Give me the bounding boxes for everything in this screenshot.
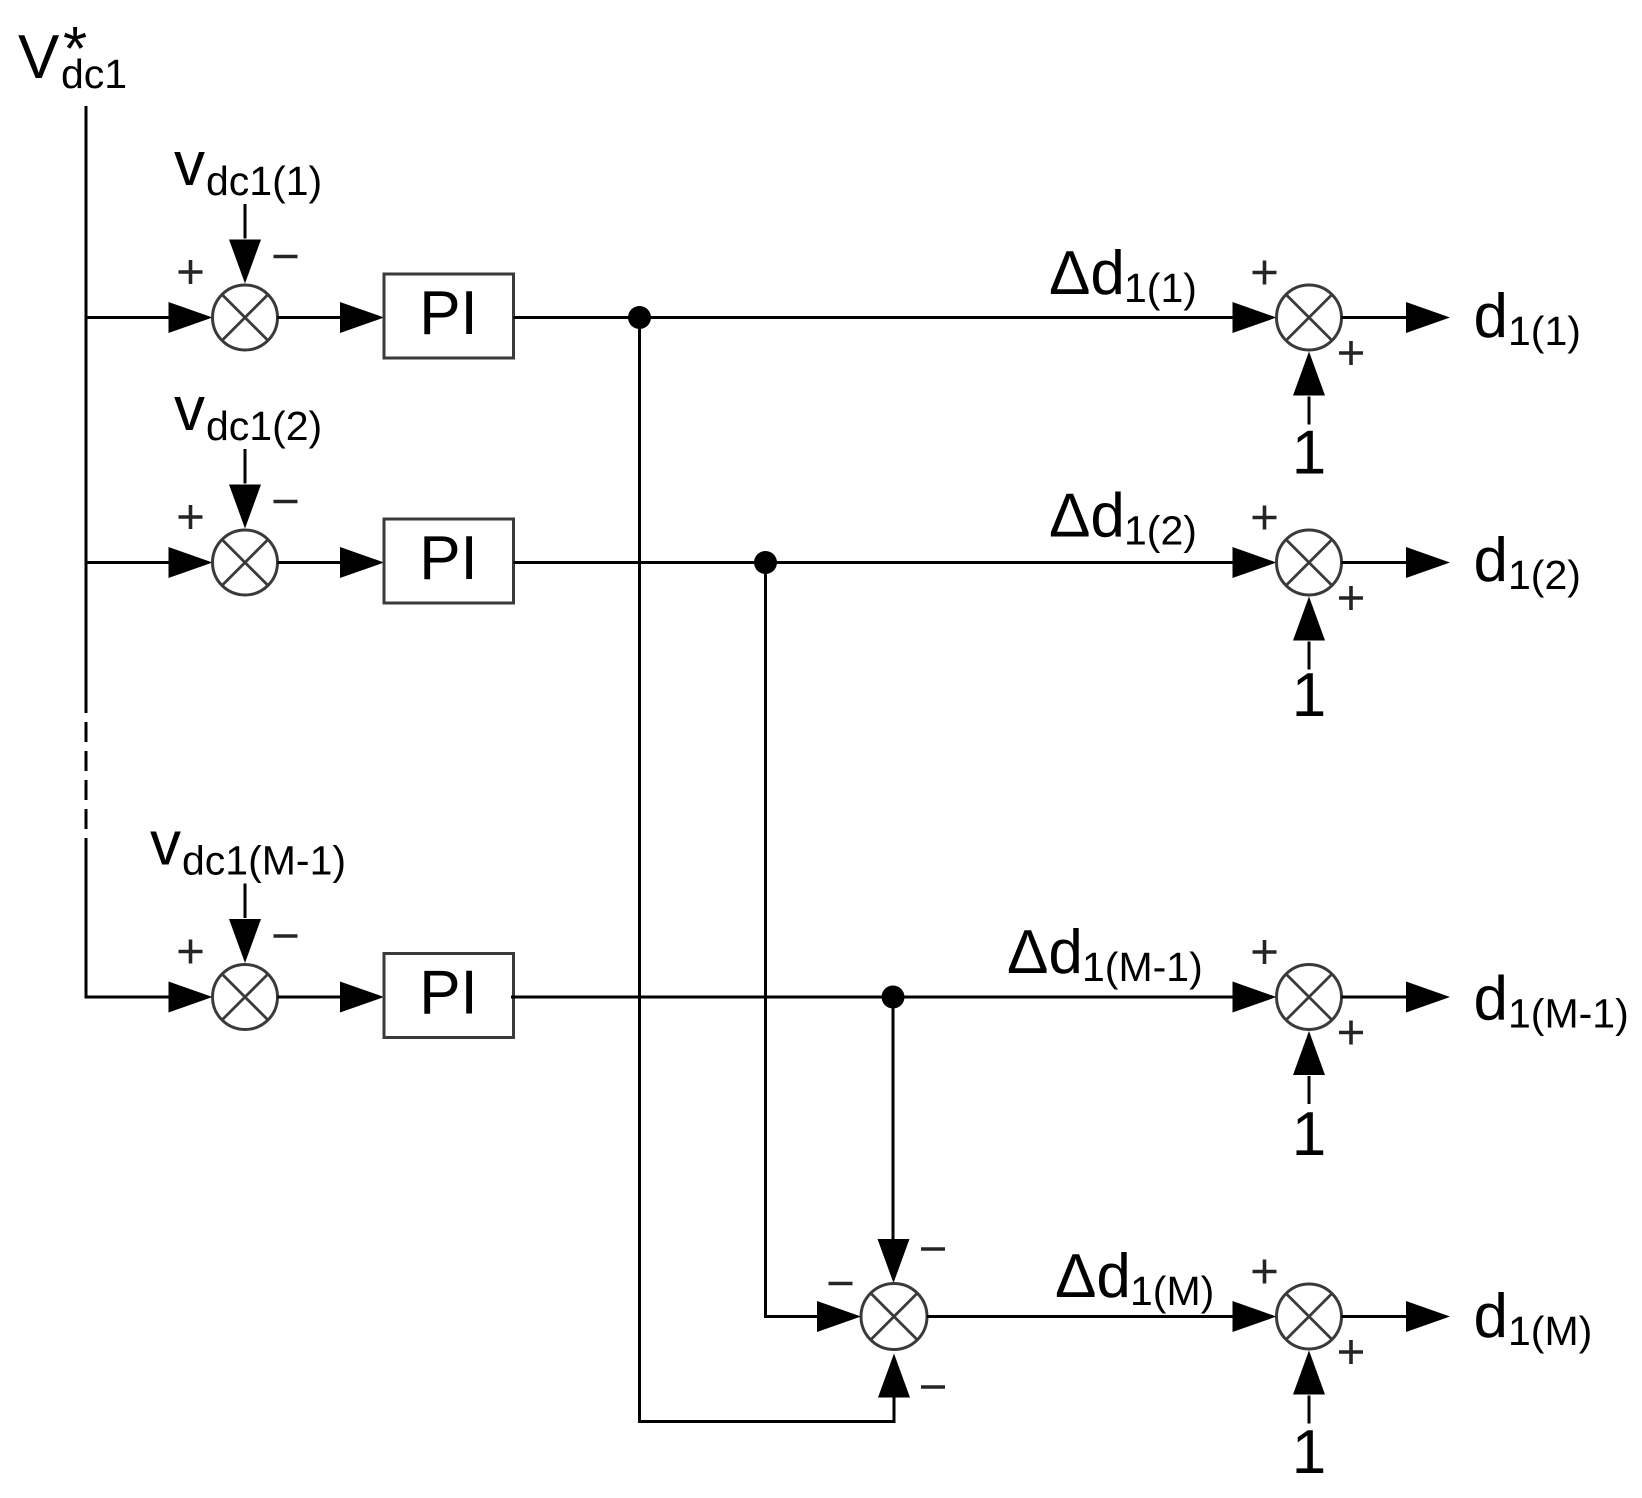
- arrowhead into PI block row M-1: [340, 982, 384, 1013]
- svg-text:1(2): 1(2): [1508, 552, 1581, 598]
- wire: PI row 1 output to adder A1: [514, 316, 1234, 319]
- svg-text:v: v: [174, 130, 205, 199]
- node vdc1(M-1) (measured voltage label): [150, 810, 346, 884]
- svg-text:Δd: Δd: [1049, 482, 1125, 551]
- svg-text:PI: PI: [419, 279, 478, 348]
- minus sign at summer SM top input: [921, 1247, 945, 1251]
- svg-text:d: d: [1474, 282, 1508, 351]
- plus sign at summer SM-1: [179, 940, 203, 964]
- wire: J1 drop to bottom feedback run: [640, 318, 896, 1422]
- svg-text:d: d: [1474, 1282, 1508, 1351]
- plus sign at summer S2: [179, 505, 203, 529]
- label output d1(2): [1474, 526, 1581, 598]
- node Vdc1* (reference input label): [18, 15, 127, 97]
- wire: PI row 2 output to adder A2: [514, 561, 1234, 564]
- plus sign at adder A1 top: [1253, 261, 1277, 285]
- wire: vdc1(2) drop into summer S2: [244, 449, 247, 484]
- arrowhead into summer SM-1 top (minus input): [229, 919, 261, 963]
- wire: summer S2 to PI block: [278, 561, 342, 564]
- svg-text:Δd: Δd: [1007, 918, 1083, 987]
- svg-text:v: v: [174, 375, 205, 444]
- label output d1(M): [1474, 1282, 1593, 1354]
- svg-text:1: 1: [1292, 419, 1326, 488]
- wire: constant 1 into adder A4: [1308, 1396, 1311, 1424]
- minus sign at summer S1: [274, 255, 298, 259]
- wire: summer S1 to PI block: [278, 316, 342, 319]
- wire: J2 drop to summer SM left: [766, 563, 819, 1317]
- PI block row M-1: [384, 954, 514, 1038]
- plus sign at adder A4 top: [1253, 1260, 1277, 1284]
- wire: summer SM output to adder A4: [927, 1315, 1233, 1318]
- svg-text:PI: PI: [419, 524, 478, 593]
- wire: adder A3 output: [1342, 996, 1407, 999]
- minus sign at summer SM-1: [274, 934, 298, 938]
- wire: constant 1 into adder A3: [1308, 1076, 1311, 1104]
- wire: PI row M-1 output to adder A3: [511, 996, 1233, 999]
- wire: constant 1 into adder A1: [1308, 397, 1311, 425]
- wire: vdc1(M-1) drop into summer SM-1: [244, 884, 247, 919]
- summing junction SM (row M): [861, 1284, 927, 1350]
- arrowhead into adder A2 bottom (plus input): [1293, 597, 1325, 641]
- summing junction SM-1: [213, 965, 278, 1030]
- svg-text:1(2): 1(2): [1124, 508, 1197, 554]
- svg-text:1: 1: [1292, 1100, 1326, 1169]
- arrowhead output d1(M): [1406, 1301, 1450, 1332]
- arrowhead into summer SM top (minus input): [878, 1239, 910, 1283]
- svg-text:1: 1: [1292, 1418, 1326, 1487]
- wire: adder A1 output: [1342, 316, 1407, 319]
- plus sign at adder A2 bottom: [1339, 586, 1363, 610]
- svg-text:dc1(M-1): dc1(M-1): [182, 838, 346, 884]
- wire: adder A4 output: [1342, 1315, 1407, 1318]
- arrowhead into summer SM bottom (minus input): [878, 1354, 910, 1398]
- wire: bottom feedback rise into summer SM bottom: [893, 1397, 896, 1422]
- wire: J3 drop to summer SM top: [892, 997, 895, 1239]
- label delta-d 1(M): [1055, 1242, 1214, 1314]
- arrowhead into summer S2 top (minus input): [229, 485, 261, 529]
- label output d1(1): [1474, 282, 1581, 354]
- node vdc1(2) (measured voltage label): [174, 375, 322, 449]
- plus sign at adder A2 top: [1253, 506, 1277, 530]
- wire: row M-1 input from Vdc1* bus: [85, 996, 171, 999]
- minus sign at summer S2: [274, 500, 298, 504]
- output adder A2: [1277, 530, 1342, 595]
- svg-text:dc1(2): dc1(2): [206, 403, 322, 449]
- arrowhead output d1(M-1): [1406, 982, 1450, 1013]
- plus sign at adder A3 top: [1253, 940, 1277, 964]
- wire: row 1 input from Vdc1* bus: [85, 316, 171, 319]
- output adder A1: [1277, 285, 1342, 350]
- PI block row 1: [384, 274, 514, 358]
- svg-text:Δd: Δd: [1055, 1242, 1131, 1311]
- arrowhead into adder A4 left (plus input): [1233, 1301, 1277, 1332]
- svg-text:d: d: [1474, 526, 1508, 595]
- output adder A3: [1277, 965, 1342, 1030]
- svg-text:d: d: [1474, 965, 1508, 1034]
- wire: adder A2 output: [1342, 561, 1407, 564]
- wire: constant 1 into adder A2: [1308, 642, 1311, 670]
- plus sign at summer S1: [179, 260, 203, 284]
- arrowhead into summer S2 left (plus input): [169, 547, 213, 578]
- wire: vdc1(1) drop into summer S1: [244, 204, 247, 239]
- wire: summer SM-1 to PI block: [278, 996, 342, 999]
- arrowhead into adder A1 left (plus input): [1233, 302, 1277, 333]
- svg-text:dc1: dc1: [61, 51, 127, 97]
- minus sign at summer SM bottom input: [921, 1385, 945, 1389]
- svg-text:1(M-1): 1(M-1): [1082, 944, 1203, 990]
- svg-text:1(M): 1(M): [1130, 1268, 1214, 1314]
- arrowhead into adder A1 bottom (plus input): [1293, 352, 1325, 396]
- arrowhead into summer S1 left (plus input): [169, 302, 213, 333]
- svg-text:1(1): 1(1): [1124, 265, 1197, 311]
- svg-text:V: V: [18, 23, 60, 92]
- arrowhead into adder A3 bottom (plus input): [1293, 1031, 1325, 1075]
- svg-text:PI: PI: [419, 959, 478, 1028]
- plus sign at adder A3 bottom: [1339, 1021, 1363, 1045]
- junction dot J1 on row 1: [628, 306, 651, 329]
- summing junction S2: [213, 530, 278, 595]
- arrowhead into PI block row 2: [340, 547, 384, 578]
- arrowhead output d1(2): [1406, 547, 1450, 578]
- label delta-d 1(1): [1049, 239, 1197, 311]
- plus sign at adder A4 bottom: [1339, 1340, 1363, 1364]
- svg-text:1(1): 1(1): [1508, 308, 1581, 354]
- junction dot J3 on row M-1: [882, 986, 905, 1009]
- minus sign at summer SM left input: [829, 1282, 853, 1286]
- label output d1(M-1): [1474, 965, 1629, 1037]
- arrowhead output d1(1): [1406, 302, 1450, 333]
- arrowhead into summer SM-1 left (plus input): [169, 982, 213, 1013]
- svg-text:1: 1: [1292, 661, 1326, 730]
- arrowhead into adder A2 left (plus input): [1233, 547, 1277, 578]
- svg-text:1(M): 1(M): [1508, 1308, 1592, 1354]
- wire: Vdc1* vertical bus, upper solid segment: [85, 106, 88, 693]
- arrowhead into summer SM left (minus input): [817, 1301, 861, 1332]
- svg-text:1(M-1): 1(M-1): [1508, 991, 1629, 1037]
- arrowhead into adder A3 left (plus input): [1233, 982, 1277, 1013]
- svg-text:dc1(1): dc1(1): [206, 158, 322, 204]
- label delta-d 1(M-1): [1007, 918, 1203, 990]
- arrowhead into adder A4 bottom (plus input): [1293, 1351, 1325, 1395]
- summing junction S1: [213, 285, 278, 350]
- wire: row 2 input from Vdc1* bus: [85, 561, 171, 564]
- PI block row 2: [384, 519, 514, 603]
- wire: Vdc1* vertical bus, dashed segment: [85, 693, 88, 840]
- svg-text:v: v: [150, 810, 181, 879]
- label delta-d 1(2): [1049, 482, 1197, 554]
- arrowhead into PI block row 1: [340, 302, 384, 333]
- node vdc1(1) (measured voltage label): [174, 130, 322, 204]
- arrowhead into summer S1 top (minus input): [229, 240, 261, 284]
- junction dot J2 on row 2: [754, 551, 777, 574]
- plus sign at adder A1 bottom: [1339, 341, 1363, 365]
- wire: Vdc1* vertical bus, lower solid segment to row M-1 corner: [85, 840, 88, 997]
- output adder A4: [1277, 1284, 1342, 1349]
- svg-text:Δd: Δd: [1049, 239, 1125, 308]
